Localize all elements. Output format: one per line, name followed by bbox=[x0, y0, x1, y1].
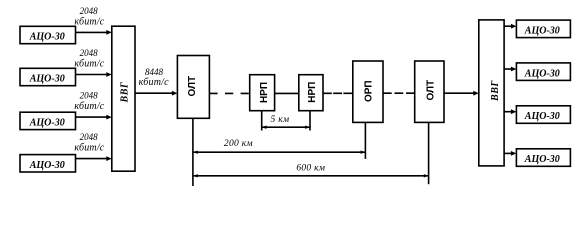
svg-text:ОРП: ОРП bbox=[364, 80, 375, 102]
extension line below НРП1 bbox=[261, 111, 263, 131]
label 2048 кбит/с (wire L4) bbox=[74, 132, 104, 153]
svg-text:кбит/с: кбит/с bbox=[74, 59, 104, 70]
label 2048 кбит/с (wire L1) bbox=[74, 6, 104, 27]
svg-text:кбит/с: кбит/с bbox=[74, 143, 104, 154]
svg-text:2048: 2048 bbox=[80, 48, 99, 58]
wire ВВГ1 to ОЛТ1 with arrow bbox=[135, 91, 177, 96]
svg-text:2048: 2048 bbox=[80, 132, 99, 142]
wire ВВГ2 to R4 with arrow bbox=[504, 151, 516, 156]
svg-text:ВВГ: ВВГ bbox=[490, 80, 501, 102]
block R4 АЦО-30 bbox=[516, 149, 570, 167]
svg-text:АЦО-30: АЦО-30 bbox=[524, 154, 560, 165]
wire L3 to ВВГ1 with arrow bbox=[76, 115, 112, 120]
svg-text:8448: 8448 bbox=[145, 67, 164, 77]
svg-text:ВВГ: ВВГ bbox=[120, 81, 131, 103]
label 2048 кбит/с (wire L2) bbox=[74, 48, 104, 69]
block L3 АЦО-30 bbox=[20, 112, 76, 129]
svg-text:ОЛТ: ОЛТ bbox=[426, 80, 437, 101]
block L1 АЦО-30 bbox=[20, 26, 76, 43]
block R2 АЦО-30 bbox=[516, 63, 570, 81]
dashed wire НРП2 to ОРП bbox=[323, 92, 353, 94]
block ОЛТ2 bbox=[415, 61, 444, 122]
svg-text:АЦО-30: АЦО-30 bbox=[29, 74, 65, 85]
block ВВГ2 bbox=[479, 20, 504, 166]
svg-text:2048: 2048 bbox=[80, 6, 99, 16]
wire ВВГ2 to R2 with arrow bbox=[504, 67, 516, 72]
block НРП1 bbox=[250, 75, 275, 111]
block ОРП bbox=[353, 61, 383, 122]
svg-text:АЦО-30: АЦО-30 bbox=[524, 68, 560, 79]
extension line below ОЛТ2 bbox=[428, 122, 430, 184]
extension line below НРП2 bbox=[309, 111, 311, 131]
svg-text:АЦО-30: АЦО-30 bbox=[524, 26, 560, 37]
svg-text:ОЛТ: ОЛТ bbox=[187, 76, 198, 97]
dashed wire ОЛТ1 to НРП1 bbox=[209, 92, 249, 94]
svg-text:НРП: НРП bbox=[259, 82, 270, 103]
svg-text:200 км: 200 км bbox=[224, 139, 253, 149]
svg-text:5 км: 5 км bbox=[270, 115, 289, 125]
wire L1 to ВВГ1 with arrow bbox=[76, 30, 112, 35]
wire ВВГ2 to R1 with arrow bbox=[504, 24, 516, 29]
wire ВВГ2 to R3 with arrow bbox=[504, 109, 516, 114]
svg-text:АЦО-30: АЦО-30 bbox=[524, 111, 560, 122]
block L2 АЦО-30 bbox=[20, 68, 76, 85]
svg-text:2048: 2048 bbox=[80, 91, 99, 101]
svg-text:кбит/с: кбит/с bbox=[139, 77, 169, 88]
svg-text:АЦО-30: АЦО-30 bbox=[29, 118, 65, 129]
block L4 АЦО-30 bbox=[20, 155, 76, 172]
block ВВГ1 bbox=[112, 26, 135, 171]
wire L4 to ВВГ1 with arrow bbox=[76, 156, 112, 161]
wire НРП1 to НРП2 bbox=[275, 92, 299, 94]
block НРП2 bbox=[299, 75, 323, 111]
block R1 АЦО-30 bbox=[516, 20, 570, 37]
svg-text:АЦО-30: АЦО-30 bbox=[29, 32, 65, 43]
svg-text:600 км: 600 км bbox=[296, 163, 325, 173]
block R3 АЦО-30 bbox=[516, 106, 570, 124]
extension line below ОРП bbox=[364, 122, 366, 158]
label 2048 кбит/с (wire L3) bbox=[74, 91, 104, 112]
dimension 200 км bbox=[193, 139, 366, 154]
block ОЛТ1 bbox=[177, 56, 209, 119]
dashed wire ОРП to ОЛТ2 bbox=[383, 92, 415, 94]
svg-text:АЦО-30: АЦО-30 bbox=[29, 160, 65, 171]
dimension 5 км bbox=[262, 115, 310, 129]
wire ОЛТ2 to ВВГ2 with arrow bbox=[444, 91, 479, 96]
wire L2 to ВВГ1 with arrow bbox=[76, 72, 112, 77]
extension line below ОЛТ1 bbox=[192, 118, 194, 186]
svg-text:кбит/с: кбит/с bbox=[74, 16, 104, 27]
label 8448 кбит/с bbox=[139, 67, 169, 88]
svg-text:НРП: НРП bbox=[307, 82, 318, 103]
svg-text:кбит/с: кбит/с bbox=[74, 101, 104, 112]
dimension 600 км bbox=[193, 163, 429, 177]
